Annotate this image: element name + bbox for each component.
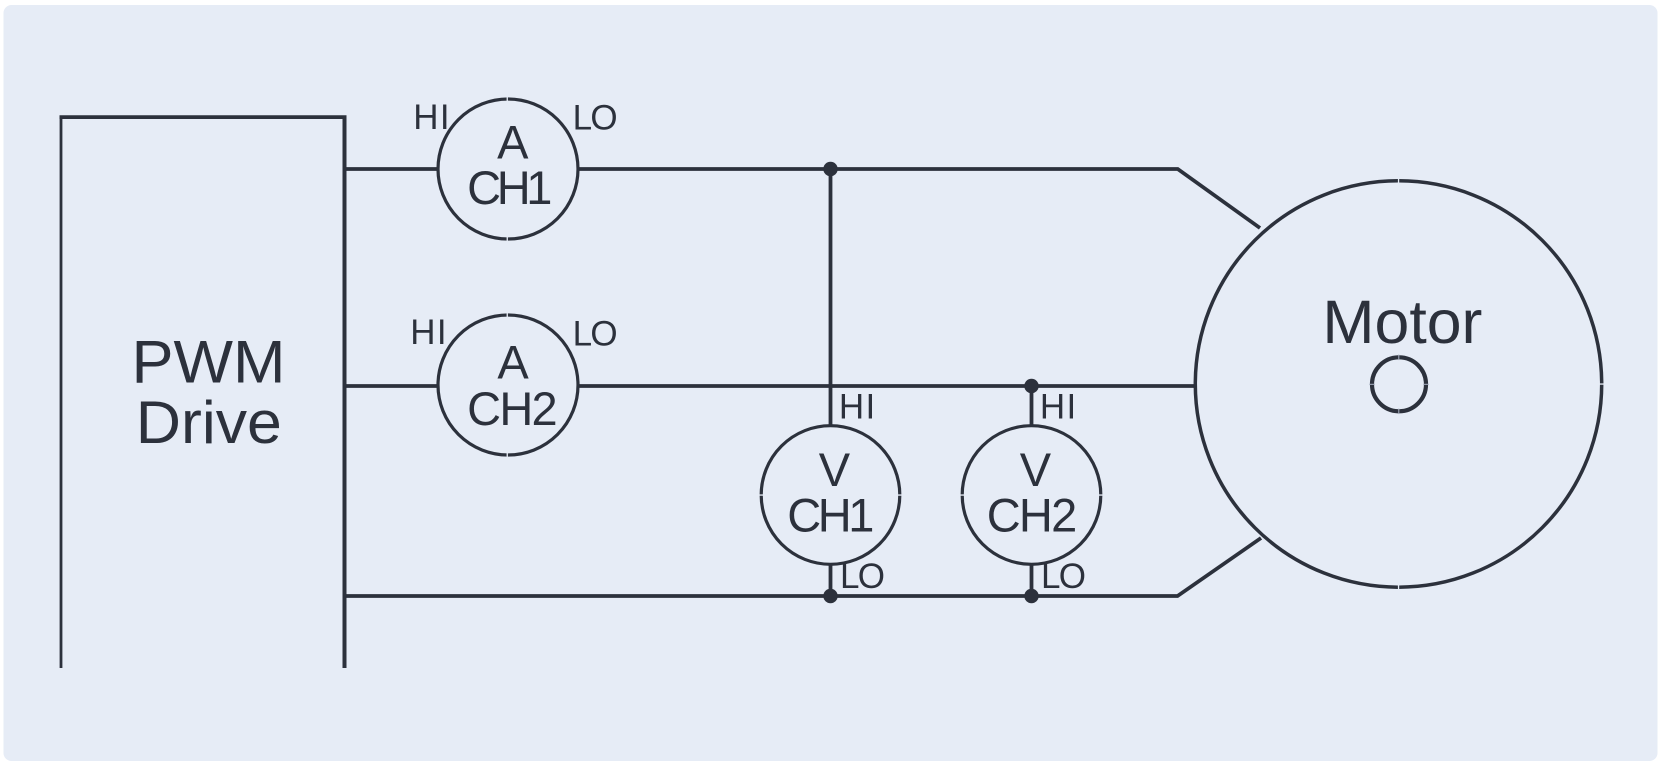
svg-text:CH1: CH1 (787, 489, 874, 542)
svg-text:Motor: Motor (1322, 288, 1482, 357)
svg-text:Drive: Drive (136, 389, 282, 456)
svg-text:PWM: PWM (132, 329, 286, 396)
svg-text:LO: LO (573, 315, 618, 354)
svg-text:CH2: CH2 (987, 489, 1078, 542)
svg-text:LO: LO (573, 99, 618, 138)
svg-text:CH1: CH1 (467, 161, 552, 214)
svg-text:LO: LO (1041, 557, 1086, 596)
svg-text:HI: HI (1040, 387, 1076, 426)
svg-text:A: A (497, 336, 529, 389)
svg-text:HI: HI (839, 387, 875, 426)
svg-text:CH2: CH2 (467, 382, 558, 435)
svg-text:HI: HI (410, 313, 446, 352)
svg-text:HI: HI (413, 98, 449, 137)
svg-text:LO: LO (840, 557, 885, 596)
